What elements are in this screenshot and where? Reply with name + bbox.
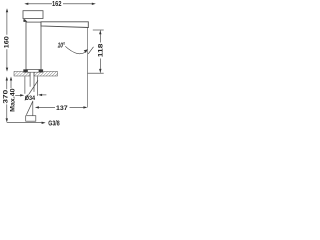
svg-text:10°: 10° (58, 41, 65, 49)
svg-text:160: 160 (3, 36, 10, 48)
svg-text:137: 137 (56, 105, 68, 112)
svg-text:Ø34: Ø34 (25, 95, 36, 102)
svg-text:162: 162 (52, 0, 61, 8)
svg-text:G3/8: G3/8 (48, 118, 59, 127)
svg-text:Max.40: Max.40 (10, 88, 17, 112)
svg-text:118: 118 (98, 43, 105, 57)
